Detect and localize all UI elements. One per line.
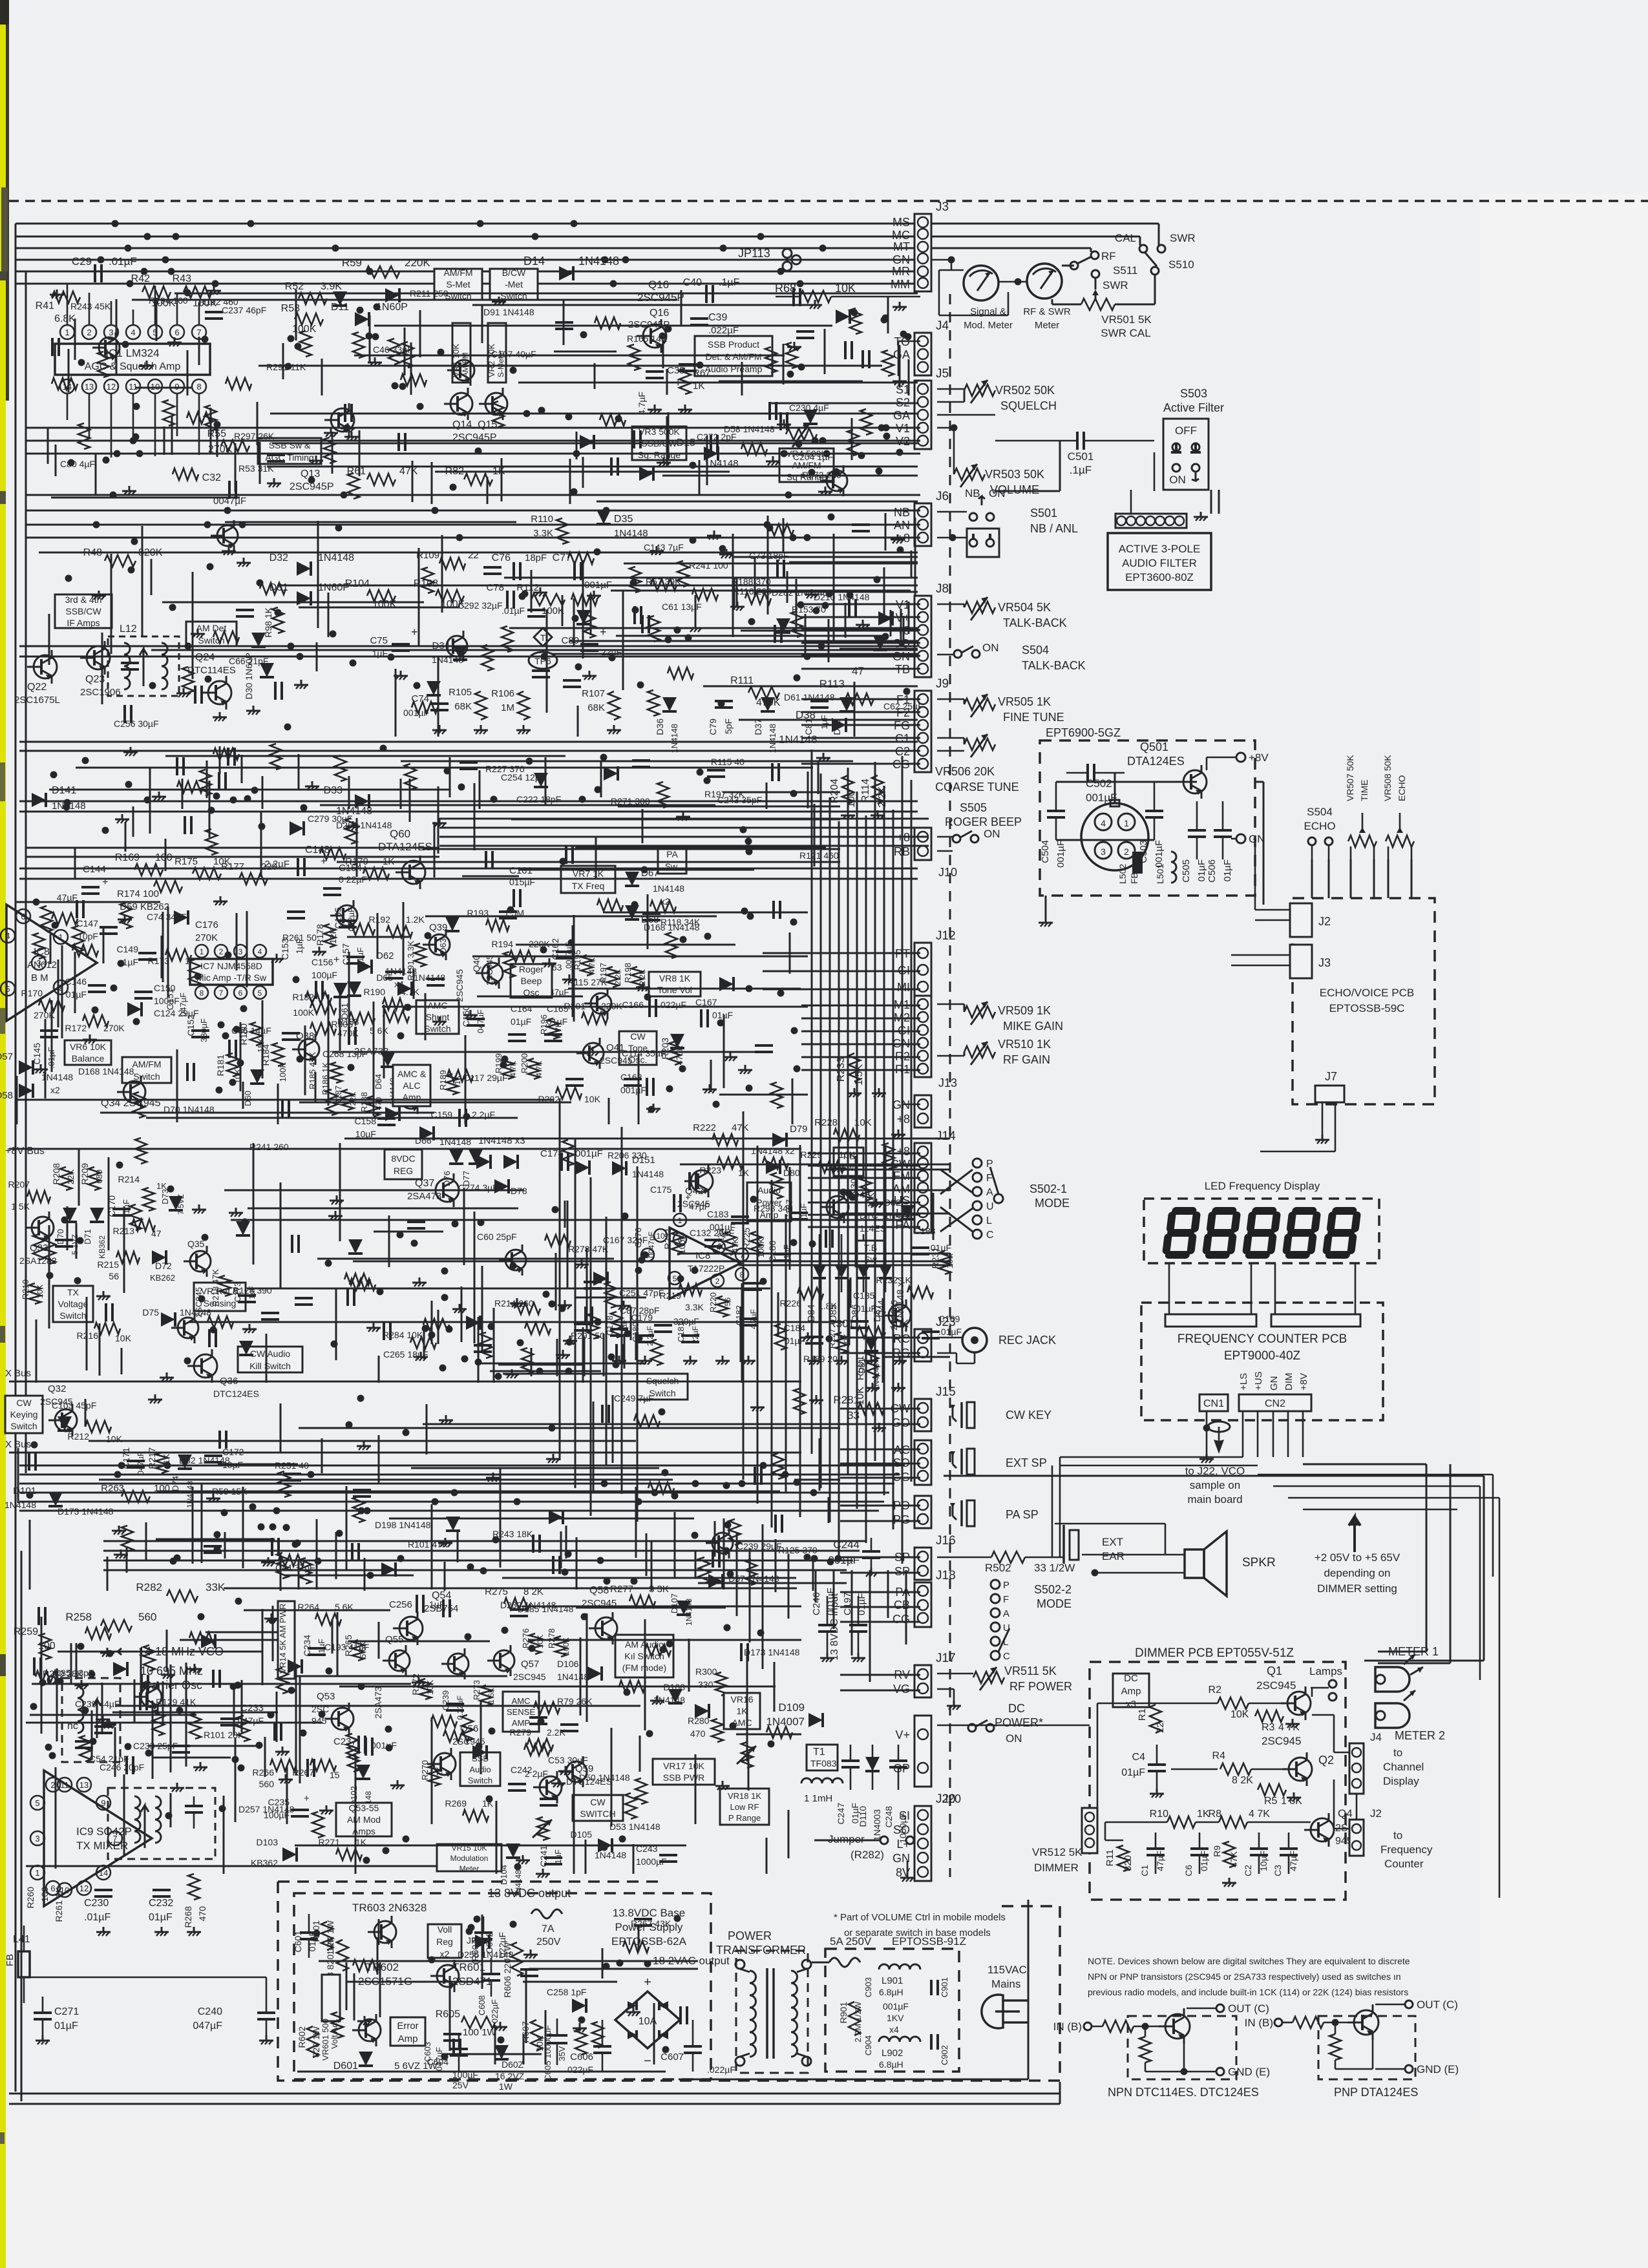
resistor R301 10K [857,1327,885,1338]
wire [478,1317,480,1383]
capacitor [527,609,545,611]
junction [235,1598,242,1605]
junction [794,1479,801,1486]
IC7 box [190,959,273,985]
svg-text:3: 3 [238,947,243,956]
diodes D84-D87 [813,1265,826,1278]
resistor [768,524,794,536]
diode [776,618,790,633]
wire [828,1497,830,1523]
svg-text:COARSE TUNE: COARSE TUNE [935,781,1019,793]
svg-text:J12: J12 [936,929,956,943]
wire [99,1479,673,1481]
junction [111,985,118,992]
svg-text:R291 50: R291 50 [571,1330,605,1341]
D81 1N4148 vertical [864,1337,878,1351]
capacitor [499,910,517,913]
svg-text:R5: R5 [1264,1796,1278,1807]
wire [246,911,248,987]
SSB product det box [695,336,772,376]
junction [30,1703,37,1710]
wire [624,563,918,565]
svg-text:or separate switch in base mod: or separate switch in base models [844,1927,991,1938]
IC9 pins [58,1778,72,1792]
junction [796,441,803,448]
wire [116,341,118,374]
junction [372,333,379,341]
ground [772,456,774,461]
wire [321,359,323,395]
wire [299,1675,301,1783]
wire [56,1668,58,1741]
junction [144,797,151,804]
svg-text:1W: 1W [499,2081,513,2092]
capacitor [344,404,346,422]
D80 diode [766,1160,780,1174]
capacitor C4 01uF [1148,1763,1166,1766]
svg-text:Q54: Q54 [432,1590,451,1601]
junction [198,1613,205,1621]
wire [554,351,617,353]
wire [272,443,918,445]
svg-text:R194 160: R194 160 [149,295,188,306]
resistor R68 10K [800,291,831,302]
TB Sw box [834,1148,863,1176]
capacitor [848,599,850,617]
wire [364,1558,366,1591]
svg-text:7: 7 [196,328,201,337]
wire [618,806,840,808]
svg-text:EPTOSSB-59C: EPTOSSB-59C [1329,1002,1405,1014]
diode [836,310,850,324]
diode [385,1107,399,1121]
CW switch box [573,1795,623,1821]
svg-text:F: F [1003,1594,1009,1605]
svg-text:D168 1N4148: D168 1N4148 [78,1066,134,1076]
capacitor [529,1716,547,1719]
switch SWR contact [1092,270,1099,278]
wire [337,861,840,863]
wire [51,497,240,499]
svg-text:C80 4µF: C80 4µF [60,459,95,469]
bus wire to J3 [16,283,920,285]
ground [347,423,349,428]
resistor R111 470K [748,687,779,698]
svg-text:R210: R210 [21,1279,30,1299]
svg-text:CN1: CN1 [1203,1398,1224,1409]
svg-text:MC: MC [892,229,910,242]
junction [798,602,805,609]
capacitor [353,1489,371,1491]
junction [403,1429,410,1436]
svg-text:Carrier Osc: Carrier Osc [143,1679,202,1692]
connector J20 [914,1806,931,1881]
resistor [98,352,109,377]
wire [569,459,571,504]
capacitor C76 18pF [512,562,515,580]
capacitor C3 47uF [1280,1847,1298,1850]
capacitor C38 4.7uF [646,370,664,373]
junction [450,484,457,491]
wire [165,839,167,871]
ground [364,2016,366,2021]
resistor R108 100K [436,590,464,602]
svg-text:6: 6 [174,328,179,337]
wire [503,1373,646,1375]
svg-text:C78: C78 [486,582,504,593]
wire [854,682,856,737]
wire [739,1265,950,1266]
junction [259,823,266,830]
wire [755,591,918,593]
ground [285,1774,287,1780]
svg-text:R243 45K: R243 45K [70,301,111,311]
svg-text:10K: 10K [1231,1709,1249,1720]
diode [290,821,304,835]
svg-text:1N4148: 1N4148 [595,1850,626,1860]
wire [787,571,788,603]
wire [166,1630,168,1672]
capacitor [483,566,502,569]
svg-text:R276: R276 [521,1628,531,1648]
junction [414,682,421,689]
wire [449,757,451,797]
junction [624,1330,631,1338]
bus wire vertical [856,792,858,1509]
wire [233,1686,235,1736]
svg-text:680: 680 [94,1170,104,1184]
junction [357,307,364,314]
ground [564,1300,566,1305]
R182 100K R183 470K [310,1002,336,1014]
NPN OUT GND terminals [1216,2004,1224,2012]
capacitor [532,1535,534,1553]
transistor Q23 [87,646,110,669]
junction [713,1101,720,1108]
wire [111,554,112,654]
resistor [545,1235,571,1246]
diode [878,611,893,625]
svg-text:R104: R104 [345,578,370,589]
wire [908,359,910,395]
capacitor [212,1670,215,1688]
svg-text:R198: R198 [623,963,633,983]
wire [766,1838,768,1874]
ground [81,1680,83,1685]
junction [619,1836,626,1843]
capacitor [796,330,814,333]
svg-text:C176: C176 [195,919,218,930]
junction [794,1066,801,1073]
wire [146,1117,518,1119]
resistor [189,960,200,985]
svg-text:AMC &: AMC & [397,1069,427,1079]
diode D109 1N4007 [808,1713,823,1727]
wire [899,345,901,388]
ground [154,1394,156,1400]
resistor [860,409,872,435]
svg-text:Det. & AM/FM: Det. & AM/FM [705,352,761,362]
resistor [847,430,859,456]
junction [90,1738,97,1745]
svg-text:2SA473: 2SA473 [373,1686,383,1719]
wire [474,1302,476,1343]
junction [540,947,547,954]
junction [452,1221,459,1228]
junction [549,1301,556,1308]
svg-text:EPT3600-80Z: EPT3600-80Z [1125,571,1194,583]
svg-text:R215: R215 [98,1259,120,1270]
svg-text:R194: R194 [492,939,514,949]
svg-text:B/CW: B/CW [502,268,526,278]
svg-text:CW: CW [630,1031,646,1042]
connector J3 echo [1290,945,1312,978]
R207 15K [27,1191,50,1202]
wire [298,754,300,789]
junction [560,858,567,865]
svg-text:A: A [1003,1608,1009,1619]
resistor R174 100 [154,881,182,892]
wire [41,1617,43,1734]
junction [662,1469,669,1476]
resistor [605,1282,617,1308]
junction [597,1557,604,1564]
junction [446,1326,453,1333]
dashed box echo/voice PCB [1293,898,1435,1104]
svg-text:Tone Vol: Tone Vol [657,985,692,995]
svg-text:B M: B M [31,972,48,983]
junction [790,919,798,926]
svg-text:01µF: 01µF [1196,859,1207,882]
wire [151,559,153,595]
svg-text:R602: R602 [297,2026,307,2048]
wire [36,1319,37,1383]
capacitor C81 1uF [810,700,829,702]
capacitor C505 01uF [1188,829,1206,832]
wire [465,1035,467,1124]
capacitor C150 100pF [134,991,153,993]
svg-text:D62: D62 [376,950,394,961]
svg-text:R241 100: R241 100 [689,560,728,571]
svg-text:.022µF: .022µF [708,325,739,336]
ground [439,818,441,823]
ground [336,1195,338,1201]
junction [562,1569,569,1576]
wire [48,614,50,665]
resistor R106 1M [518,691,529,720]
resistor [348,1746,359,1772]
svg-text:R243 18K: R243 18K [492,1529,533,1539]
svg-text:Q39: Q39 [429,922,447,933]
wire [171,415,173,455]
resistor [277,1553,288,1579]
svg-text:CW: CW [590,1797,606,1807]
svg-text:Voltage: Voltage [58,1299,89,1309]
junction [78,359,85,366]
ground [243,558,245,563]
resistor [41,906,52,932]
wire [565,585,918,587]
capacitor [642,912,660,915]
mod meter pot [537,1817,549,1840]
bus wire vertical [811,750,813,1454]
wire [463,1188,465,1265]
R275 8.2K [504,1598,530,1610]
resistor R11 820 [1117,1845,1129,1871]
svg-text:1N4148: 1N4148 [670,724,679,753]
wire [321,1438,323,1473]
resistor R114 2.2K [872,775,883,804]
resistor [52,913,78,925]
wire [525,1969,527,2043]
junction [517,1339,524,1347]
svg-text:VR504 5K: VR504 5K [998,601,1051,614]
svg-text:Switch: Switch [424,1024,450,1034]
junction [45,1744,52,1751]
wire [531,570,533,613]
svg-text:TX MIXER: TX MIXER [76,1840,128,1852]
wire [339,1143,341,1241]
resistor [405,764,416,790]
ground [500,2022,502,2027]
capacitor [774,625,776,643]
wire [356,818,358,877]
connector CN1 [1199,1394,1228,1411]
svg-text:C258 1pF: C258 1pF [547,1987,586,1997]
ground [445,1538,447,1543]
resistor [120,903,132,929]
wire [597,501,918,503]
wire [217,424,218,457]
svg-text:1 5K: 1 5K [487,1688,496,1704]
svg-text:EAR: EAR [1102,1550,1125,1562]
wire [586,1248,588,1330]
svg-text:C292 32µF: C292 32µF [458,600,503,611]
svg-text:7: 7 [219,989,224,998]
wire [431,1717,433,1824]
ground [124,914,126,919]
svg-text:Active Filter: Active Filter [1163,401,1224,414]
ground [315,456,317,461]
resistor [571,594,597,605]
svg-text:47K: 47K [732,1122,749,1133]
junction [132,434,140,441]
wire [339,1686,776,1688]
wire [241,755,243,783]
wire [692,494,910,496]
wire [377,1937,379,1975]
svg-text:Modulation: Modulation [450,1854,489,1863]
capacitor C501 .1uF [1076,432,1079,450]
diode [427,681,441,695]
svg-text:R4: R4 [1212,1750,1226,1761]
wire [266,1334,268,1383]
diode [575,1160,589,1175]
extra long horizontals [39,552,918,554]
wire [156,298,158,341]
svg-text:Frequency: Frequency [1380,1843,1433,1856]
svg-text:C251 47pF: C251 47pF [619,1288,664,1298]
capacitor C40 .1uF [705,285,708,303]
svg-text:C3: C3 [1273,1865,1283,1876]
svg-text:R267 43K: R267 43K [631,1918,671,1929]
ground [516,1298,518,1303]
capacitor [186,1063,189,1081]
junction [133,403,140,410]
ground [522,1855,524,1860]
svg-text:OFF: OFF [1175,425,1197,437]
junction [125,781,132,788]
svg-text:CAL: CAL [1115,232,1136,244]
LED display dashed box [1144,1199,1379,1263]
bus wire vertical [865,815,867,1543]
diode [639,467,653,481]
junction [411,1240,418,1247]
bus junction dots [477,220,484,227]
svg-text:VR510 1K: VR510 1K [998,1038,1051,1051]
resistor [524,1744,550,1756]
capacitor [194,686,196,704]
transistor [141,1686,162,1707]
svg-text:D70: D70 [56,1229,65,1244]
svg-text:Meter: Meter [1035,320,1059,331]
resistor [771,1173,783,1199]
junction [644,994,651,1001]
svg-text:VR8 1K: VR8 1K [659,973,691,983]
ground [459,1304,461,1309]
wire [739,719,918,721]
VR ref sensing box [194,1283,246,1311]
wire [556,1339,558,1376]
svg-text:OUT (C): OUT (C) [1228,2002,1269,2015]
svg-text:Error: Error [397,2021,418,2032]
transistor [505,1250,526,1270]
junction [690,462,697,469]
connector J14 [914,1143,931,1233]
junction [510,1921,517,1928]
capacitor [28,1453,30,1471]
wire [355,1755,357,1874]
switch S511 [1070,262,1078,269]
svg-text:820: 820 [1123,1855,1134,1871]
NPN transistor [1165,2014,1190,2039]
svg-text:NPN DTC114ES. DTC124ES: NPN DTC114ES. DTC124ES [1108,2086,1259,2099]
resistor [353,332,364,358]
wire [58,960,59,1027]
junction [697,362,704,369]
resistor [562,1140,574,1166]
connector J12 [914,943,931,997]
wire [134,1679,136,1722]
svg-text:C239 44µF: C239 44µF [75,1699,120,1709]
svg-text:CW Audio: CW Audio [250,1349,290,1359]
resistor [33,933,45,959]
svg-text:R282: R282 [136,1581,162,1593]
transistor [827,470,847,491]
svg-text:.1µF: .1µF [719,277,740,288]
wire [223,1796,225,1874]
ground [511,1369,513,1374]
GN node [1236,834,1245,843]
svg-text:2SC1906: 2SC1906 [80,687,121,698]
svg-text:VG: VG [893,1683,910,1696]
resistor [326,1089,337,1115]
svg-text:250V: 250V [536,1937,561,1948]
capacitor [584,1281,602,1283]
junction [149,682,156,689]
vertical bundle extensions [815,1570,817,1602]
resistor [883,1143,894,1169]
